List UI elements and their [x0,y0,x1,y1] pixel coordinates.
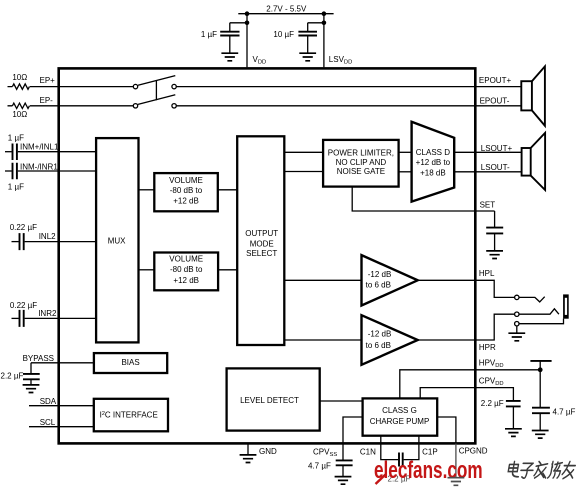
svg-text:EPOUT-: EPOUT- [480,96,510,105]
speaker (earpiece) [521,66,545,125]
capacitor 10uF (LSVDD decoupling) [298,23,317,53]
wire MUX to VOLUME2 [139,269,155,271]
svg-text:+12 dB: +12 dB [173,196,199,205]
wire LSVDD riser [323,14,325,68]
capacitor 4.7uF (CPVSS) [336,460,353,476]
ground (SET cap) [486,251,503,259]
svg-text:MODE: MODE [250,239,274,248]
svg-text:-12 dB: -12 dB [368,270,392,279]
svg-text:SET: SET [480,200,496,209]
wire 10uF cap branch [308,22,324,24]
svg-text:EP-: EP- [40,96,54,105]
wire CLASS D to LSOUT- [454,171,521,173]
wire CPVSS [343,417,363,460]
capacitor 1uF (VDD decoupling) [220,23,239,53]
svg-text:to 6 dB: to 6 dB [366,281,391,290]
svg-text:OUTPUT: OUTPUT [245,229,278,238]
capacitor 2.2uF (CPVDD) [506,401,521,429]
svg-text:MUX: MUX [108,236,126,245]
headphone jack body [563,294,569,318]
wire VOLUME1 to OMS [218,189,237,191]
block BIAS [94,353,167,373]
ground (4.7uF bottom) [335,477,352,485]
wire POWER LIMITER to CLASS D (top) [399,151,412,153]
svg-text:LEVEL DETECT: LEVEL DETECT [240,396,299,405]
svg-text:CLASS G: CLASS G [382,406,417,415]
switch EP+ right terminal [172,84,176,88]
ground (jack sleeve) [508,333,525,341]
junction on bus at LSVDD [322,11,327,16]
svg-text:4.7 µF: 4.7 µF [553,407,576,416]
svg-text:NOISE GATE: NOISE GATE [337,167,385,176]
svg-text:LSOUT+: LSOUT+ [481,144,513,153]
wire CPGND [437,417,456,444]
junction HPVDD cap [538,367,543,372]
svg-text:-80 dB to: -80 dB to [170,265,203,274]
wire EP+ lead [8,86,134,88]
svg-text:CPGND: CPGND [459,447,488,456]
svg-text:INM-/INR1: INM-/INR1 [20,163,58,172]
wire sleeve to ground [516,326,518,333]
svg-text:CHARGE PUMP: CHARGE PUMP [370,417,430,426]
switch EP- left terminal [133,104,137,108]
block VOLUME 1 [154,173,218,211]
switch EP- right terminal [172,104,176,108]
wire INR2 [25,317,97,319]
wire CLASS D to LSOUT+ [454,151,521,153]
svg-text:EP+: EP+ [40,76,56,85]
wire MUX to VOLUME1 [139,189,155,191]
wire OMS to POWER LIMITER (bottom) [284,171,323,173]
resistor 10 ohm (EP+) [12,84,29,89]
ground (1uF cap) [221,53,238,61]
svg-text:elecfans.com: elecfans.com [374,457,483,484]
svg-text:BYPASS: BYPASS [23,354,54,363]
wire INL2 [25,241,97,243]
jack tip terminal [515,295,519,299]
capacitor SET [486,211,503,251]
svg-text:10Ω: 10Ω [12,110,27,119]
svg-text:C1P: C1P [422,447,438,456]
svg-text:VOLUME: VOLUME [169,254,203,263]
wire C1P [404,436,419,460]
capacitor 0.22uF (INL2) [12,233,24,250]
amplifier HP right -12dB to 6dB [362,315,418,365]
wire INM+/INL1 [18,151,97,153]
wire POWER LIMITER to CLASS D (bottom) [399,171,412,173]
svg-text:SCL: SCL [40,418,56,427]
svg-text:VOLUME: VOLUME [169,176,203,185]
wire C1N [381,436,398,460]
svg-text:-80 dB to: -80 dB to [170,186,203,195]
svg-text:INL2: INL2 [39,232,56,241]
wire EP- lead [8,105,134,107]
chip outer boundary [59,68,476,443]
wire INM-/INR1 [18,170,97,172]
block VOLUME 2 [154,253,218,291]
wire HPR to jack [418,314,515,340]
svg-text:SELECT: SELECT [246,249,277,258]
wire VDD riser [246,14,248,68]
svg-text:1 µF: 1 µF [8,183,24,192]
svg-text:1 µF: 1 µF [8,134,24,143]
svg-text:I2C INTERFACE: I2C INTERFACE [100,411,158,420]
jack tip contact [519,297,545,302]
block OUTPUT MODE SELECT [237,136,284,345]
svg-text:NO CLIP AND: NO CLIP AND [336,158,387,167]
amplifier CLASS D [412,122,455,202]
svg-text:10 µF: 10 µF [273,30,294,39]
wire CPVDD [420,388,513,401]
amplifier HP left -12dB to 6dB [362,255,418,305]
capacitor 1uF (INM-/INR1) [5,163,17,180]
svg-text:4.7 µF: 4.7 µF [308,462,331,471]
wire SCL [29,426,94,428]
svg-text:HPL: HPL [479,269,495,278]
svg-text:0.22 µF: 0.22 µF [10,301,37,310]
wire 1uF cap branch [230,22,247,24]
svg-text:+18 dB: +18 dB [420,169,446,178]
ground (2.2uF right) [505,429,522,437]
wire VOLUME2 to OMS [218,269,237,271]
capacitor 4.7uF (HPVDD) [532,361,550,430]
switch EP+ blade [138,76,175,86]
svg-text:+12 dB to: +12 dB to [416,158,451,167]
ground (GND pin) [240,455,257,463]
switch EP- blade [138,95,175,105]
svg-text:BIAS: BIAS [121,358,139,367]
capacitor 2.2uF (flying C1N-C1P) [399,453,403,467]
svg-text:CLASS D: CLASS D [416,148,450,157]
wire LEVEL DETECT to CLASS G [320,400,363,402]
watermark chinese text (drawn strokes) [507,462,576,479]
svg-text:+12 dB: +12 dB [173,276,199,285]
svg-text:1 µF: 1 µF [201,30,217,39]
svg-text:INM+/INL1: INM+/INL1 [20,142,59,151]
svg-text:POWER LIMITER,: POWER LIMITER, [328,149,394,158]
svg-text:LSOUT-: LSOUT- [481,163,510,172]
svg-text:HPR: HPR [479,343,496,352]
svg-text:SDA: SDA [40,397,57,406]
speaker (loudspeaker) [522,133,546,190]
wire EPOUT- [176,105,521,107]
wire OMS to HP amp R [284,339,361,341]
wire OMS to POWER LIMITER (top) [284,151,323,153]
capacitor 2.2uF (BYPASS) [23,363,40,385]
block CLASS G CHARGE PUMP [363,398,438,435]
wire BYPASS to BIAS [31,362,95,364]
block I2C INTERFACE [94,399,168,432]
svg-text:2.7V - 5.5V: 2.7V - 5.5V [266,4,307,13]
junction LSVDD cap tap [322,21,327,26]
block MUX [96,138,138,342]
junction VDD cap tap [245,21,250,26]
switch linkage bar [155,81,157,101]
svg-text:GND: GND [259,447,277,456]
block LEVEL DETECT [227,368,320,430]
block POWER LIMITER [323,140,399,187]
wire HPVDD [400,370,540,399]
svg-text:to 6 dB: to 6 dB [366,341,391,350]
capacitor 0.22uF (INR2) [12,310,24,327]
svg-text:10Ω: 10Ω [12,73,27,82]
wire EPOUT+ [176,86,521,88]
ground (BYPASS cap) [23,385,40,393]
ground (10uF cap) [299,53,316,61]
jack sleeve terminal [515,322,519,326]
wire GND [247,444,249,455]
ground (4.7uF right) [532,431,549,439]
watermark elecfans.com [374,457,483,484]
resistor 10 ohm (EP-) [12,103,29,108]
svg-text:0.22 µF: 0.22 µF [10,223,37,232]
junction on bus at VDD [245,11,250,16]
wire sleeve to jack body [519,319,564,324]
svg-text:2.2 µF: 2.2 µF [481,399,504,408]
svg-text:-12 dB: -12 dB [368,329,392,338]
rail bar (4.7uF top) [530,360,551,362]
wire supply bus [238,13,333,15]
wire HPL to jack [418,280,515,297]
switch EP+ left terminal [133,84,137,88]
svg-text:INR2: INR2 [38,309,57,318]
capacitor 1uF (INM+/INL1) [5,144,17,161]
wire OMS to HP amp L [284,279,361,281]
jack ring terminal [515,312,519,316]
jack ring contact [519,309,559,314]
ground (CPGND) [448,478,465,486]
svg-text:EPOUT+: EPOUT+ [479,76,512,85]
svg-text:2.2 µF: 2.2 µF [1,372,24,381]
wire SET [352,187,494,212]
svg-text:C1N: C1N [360,447,376,456]
wire SDA [29,405,94,407]
